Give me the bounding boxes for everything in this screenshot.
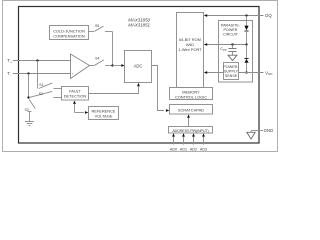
svg-text:-: -	[10, 73, 11, 77]
svg-text:AD2: AD2	[190, 148, 197, 152]
fault detection box	[62, 87, 89, 101]
svg-text:1-Wire PORT: 1-Wire PORT	[178, 47, 202, 52]
wire T-	[13, 73, 70, 75]
wire reference voltage / fault detection	[74, 104, 76, 113]
svg-text:ADDRESS PIN(INPUT): ADDRESS PIN(INPUT)	[172, 129, 208, 133]
cold-junction compensation box	[50, 26, 89, 40]
wire GND	[251, 130, 263, 132]
pin AD1 wire	[183, 136, 185, 144]
svg-text:PARASITE-: PARASITE-	[221, 24, 241, 28]
node rail / Cpp	[231, 43, 233, 45]
diode D1	[246, 16, 248, 26]
IC boundary	[19, 7, 260, 144]
svg-text:VOLTAGE: VOLTAGE	[95, 113, 113, 118]
svg-text:CONTROL LOGIC: CONTROL LOGIC	[175, 94, 207, 99]
node T+ branch	[36, 59, 38, 61]
op-amp A1	[71, 54, 90, 79]
svg-text:DETECTION: DETECTION	[64, 94, 87, 99]
switch S5	[89, 24, 113, 32]
switch S1	[38, 61, 62, 89]
svg-text:AD1: AD1	[180, 148, 187, 152]
wire DQ	[207, 15, 264, 17]
svg-text:POWER: POWER	[224, 28, 238, 32]
pin AD0 wire	[173, 136, 175, 144]
node T- branch	[27, 72, 29, 74]
node S2/S3 branch	[27, 96, 29, 98]
wire fault detection to ADC	[89, 86, 139, 93]
wire power-supply sense to 1-wire port	[207, 72, 224, 74]
node Vdd line	[245, 71, 247, 73]
svg-text:MAX31851: MAX31851	[128, 22, 150, 27]
memory control logic box	[170, 88, 213, 100]
svg-text:S5: S5	[95, 24, 99, 28]
switch S3	[24, 100, 35, 113]
svg-text:SUPPLY: SUPPLY	[224, 70, 239, 74]
svg-text:S3: S3	[24, 108, 28, 112]
ground arrow under Cpp	[228, 55, 237, 60]
wire VDD	[239, 72, 264, 74]
node rail / diodes	[245, 43, 247, 45]
svg-text:+: +	[10, 60, 12, 64]
svg-text:SENSE: SENSE	[225, 74, 238, 78]
pin AD3 wire	[203, 136, 205, 144]
svg-text:AD3: AD3	[200, 148, 207, 152]
diode D2	[246, 45, 248, 59]
svg-text:PP: PP	[223, 48, 227, 52]
svg-text:ADC: ADC	[134, 63, 143, 68]
svg-text:DD: DD	[268, 72, 272, 76]
wire to ground	[29, 112, 31, 122]
switch S2	[29, 74, 62, 98]
wire T+	[13, 60, 70, 62]
address pin box	[169, 127, 213, 134]
ground	[25, 122, 34, 126]
power-supply sense box	[224, 63, 239, 80]
svg-text:S2: S2	[39, 92, 43, 96]
svg-text:S4: S4	[95, 57, 99, 61]
svg-text:GND: GND	[264, 128, 273, 133]
wire ADC to scratchpad	[152, 66, 165, 111]
figure frame	[3, 1, 278, 152]
node ADC input	[111, 64, 113, 66]
wire internal rail	[207, 44, 247, 46]
capacitor Cpp	[220, 45, 236, 56]
wire S5 to ADC input node	[112, 32, 114, 66]
switch S4	[90, 57, 113, 66]
svg-text:SCRATCHPAD: SCRATCHPAD	[178, 108, 204, 113]
wire address pin to scratchpad	[188, 118, 190, 127]
scratchpad box	[170, 105, 213, 115]
64-bit ROM and 1-Wire port box	[177, 13, 204, 88]
pin AD2 wire	[193, 136, 195, 144]
parasite power enclosure	[219, 21, 253, 83]
wire into ADC	[113, 65, 122, 67]
svg-text:DQ: DQ	[265, 13, 272, 18]
ADC U1	[125, 51, 152, 83]
ground arrow GND	[247, 132, 255, 139]
svg-text:POWER-: POWER-	[223, 65, 239, 69]
svg-text:COMPENSATION: COMPENSATION	[53, 33, 84, 38]
reference voltage box	[89, 107, 119, 120]
node DQ branch	[245, 14, 247, 16]
svg-text:S1: S1	[39, 83, 43, 87]
svg-text:CIRCUIT: CIRCUIT	[223, 33, 239, 37]
svg-text:AD0: AD0	[170, 148, 177, 152]
